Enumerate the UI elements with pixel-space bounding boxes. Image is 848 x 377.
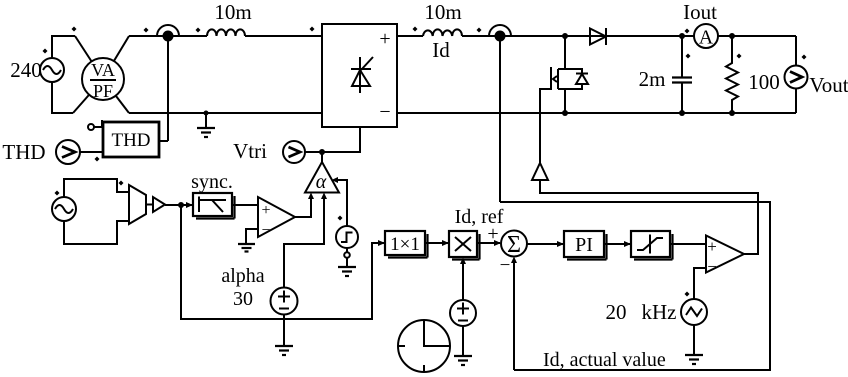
dc source Id ref [450,300,476,326]
svg-text:−: − [261,222,270,239]
node resistor bottom [729,110,735,116]
dc source alpha 30 [271,288,298,315]
ac source 20 kHz [681,299,707,325]
svg-text:10m: 10m [214,0,251,24]
wire sync feedback to 1x1 [181,205,385,319]
ground G5 under Id ref source [454,326,472,365]
comparator block (trapezoid) [129,185,146,224]
wire buffer to sync block [165,202,193,208]
polarity mark resistor [737,54,742,59]
comparator U3 [706,236,744,277]
clock symbol [398,320,450,372]
polarity mark ammeter [685,29,690,34]
summer [487,223,527,276]
svg-text:−: − [379,101,390,123]
wire Id actual value feedback [500,202,770,370]
wire 1x1 to multiplier [425,240,449,246]
svg-text:2m: 2m [639,67,666,91]
voltmeter Vout [785,36,808,113]
svg-text:+: + [707,237,717,256]
svg-text:sync.: sync. [191,171,233,193]
wire U2 output to alpha [295,193,314,218]
block limiter [631,231,673,260]
current sensor ISEN2 [489,25,511,202]
polarity mark 20kHz source [685,292,690,297]
node resistor top [729,33,735,39]
wire summer bottom input (Id actual) [511,257,517,371]
polarity mark rectifier input [310,27,315,32]
wire limiter to comparator [670,243,706,245]
svg-text:1×1: 1×1 [390,234,420,255]
probe THD [56,140,103,164]
polarity mark inductor L1 left [196,28,201,33]
polarity mark inductor L2 right [477,28,482,33]
gate drive triangle [532,163,548,180]
wire THD to sensor [159,140,168,142]
svg-text:THD: THD [2,140,45,164]
svg-text:α: α [316,171,327,193]
svg-text:VA: VA [91,60,115,80]
wire U3 output to gate drive [540,180,758,254]
svg-text:Vout: Vout [809,73,848,97]
svg-text:Id: Id [432,38,450,62]
wire alpha input 2 from dc source [284,193,327,289]
svg-text:Id, actual value: Id, actual value [543,349,666,371]
block PI [564,231,607,260]
wire U1 gate lead [305,127,360,152]
wire bottom rail [129,112,796,114]
ground G1 on bottom rail [197,111,215,138]
inductor L1 10m [207,29,245,36]
multiplier block [449,231,480,260]
wire U3 minus input [694,268,706,299]
polarity mark sensor1 left [144,28,149,33]
ground G4 under alpha30 [275,315,293,356]
wire alpha input 3 from pulse source [332,177,348,226]
svg-text:THD: THD [111,130,150,151]
svg-text:100: 100 [748,70,780,94]
svg-text:A: A [699,27,714,49]
svg-text:20: 20 [606,300,627,324]
probe Vtri [283,127,360,163]
polarity mark pulse source [338,216,343,221]
node Vtri junction [319,149,325,155]
op-amp U2 [232,197,295,239]
polarity mark source 240 [43,49,48,54]
node capacitor top [679,33,685,39]
wire PI to limiter [604,241,631,247]
capacitor C1 2m [672,36,692,113]
svg-text:Iout: Iout [683,0,717,24]
ammeter Iout [694,24,718,49]
wire summer to PI [527,241,564,247]
ground G2 under U2 [238,229,258,252]
ground G3 under pulse source [338,258,356,276]
polarity mark capacitor [686,54,691,59]
svg-text:+: + [487,223,498,245]
polarity mark voltmeter [802,55,807,60]
svg-text:alpha: alpha [221,265,264,287]
resistor R1 100 [726,36,738,113]
inductor L2 10m [423,29,462,36]
diode D1 [590,28,606,45]
wire multiplier to summer [477,240,501,246]
terminal ring under pulse source [344,248,350,258]
wire multiplier bottom input [460,258,466,301]
thyristor glyph inside U1 [351,57,373,93]
node source junction [562,110,568,116]
svg-text:PI: PI [575,234,593,256]
svg-text:+: + [261,202,270,219]
svg-text:+: + [379,28,390,50]
ac source sync [52,179,129,244]
polarity mark THD probe [95,157,100,162]
rectifier U1 (thyristor bridge) [322,24,397,127]
pulse source [336,226,358,248]
svg-text:240: 240 [10,58,42,82]
alpha controller [305,152,339,193]
block 1x1 [385,231,428,258]
buffer triangle [146,197,165,212]
svg-text:−: − [707,257,717,276]
wire Q1 gate [540,89,551,163]
current sensor ISEN1 [157,25,179,141]
svg-text:30: 30 [233,288,253,310]
wire top rail [129,35,796,37]
meter VA/PF crossing wires [73,36,129,113]
polarity mark top-left corner [72,27,77,32]
transistor Q1 MOSFET [551,36,588,114]
block sync (sawtooth) [193,193,235,219]
polarity mark rectifier output [413,27,418,32]
block THD meter [88,120,159,157]
svg-text:−: − [500,255,511,276]
polarity mark comparator input [119,181,124,186]
meter VA/PF [82,58,124,101]
svg-text:kHz: kHz [642,300,677,324]
node capacitor bottom [679,110,685,116]
ground G6 under 20 kHz source [685,325,703,364]
polarity mark sync source [55,191,60,196]
svg-text:10m: 10m [424,0,461,24]
ac source 240V [40,36,75,113]
svg-text:Vtri: Vtri [233,139,267,163]
node sync junction [178,202,184,208]
node drain junction [562,33,568,39]
svg-text:PF: PF [93,81,113,101]
